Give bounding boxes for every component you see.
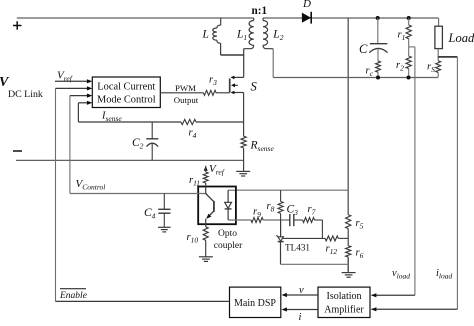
- wire vload sense: [371, 47, 415, 298]
- svg-text:n:1: n:1: [252, 5, 268, 17]
- label r7: [308, 204, 316, 217]
- transistor Q1 (opto phototransistor): [206, 187, 214, 227]
- svg-text:DC Link: DC Link: [8, 89, 43, 100]
- wire i (iso amp to DSP): [282, 307, 319, 311]
- wire rail to L: [220, 18, 222, 25]
- label r11: [189, 175, 200, 188]
- wire r7 to ref node: [315, 220, 323, 238]
- capacitor C (output, with esr): [369, 18, 387, 61]
- wire Vcontrol to opto collector: [70, 193, 206, 195]
- wire + DC link rail: [17, 17, 254, 19]
- label v: [299, 285, 304, 296]
- label C2: [132, 137, 144, 151]
- label Vcontrol: [76, 178, 106, 192]
- svg-text:Amplifier: Amplifier: [324, 305, 364, 316]
- wire Vcontrol input: [70, 94, 92, 194]
- main DSP U4: [230, 287, 281, 317]
- label C: [359, 42, 368, 56]
- capacitor C3: [290, 214, 303, 226]
- label i: [299, 312, 302, 323]
- wire - DC link rail: [16, 159, 244, 161]
- label Rsense: [250, 140, 275, 154]
- capacitor C2: [146, 122, 158, 160]
- label r6: [356, 248, 364, 261]
- label r8: [267, 201, 275, 214]
- wire TL431 ref to divider: [283, 237, 348, 239]
- label Vref (opto bias): [209, 163, 225, 177]
- label r1: [398, 30, 406, 43]
- controller U1 Local Current Mode Control: [92, 77, 160, 108]
- wire LED cathode to r9: [228, 219, 290, 221]
- wire L bottom to primary return: [221, 54, 244, 56]
- label r3: [209, 75, 217, 88]
- resistor r7: [303, 218, 315, 223]
- inductor L (magnetizing): [213, 25, 221, 55]
- svg-text:C: C: [359, 42, 368, 56]
- label C4: [144, 207, 156, 221]
- inductor L2 (secondary winding): [263, 18, 273, 49]
- label r10: [187, 232, 199, 245]
- node + (DC link positive terminal): [13, 21, 22, 29]
- isolation amplifier U3: [318, 287, 370, 317]
- node junction r2 bottom: [407, 76, 411, 80]
- wire Enable input: [56, 86, 93, 301]
- label r2: [396, 60, 404, 73]
- label n:1: [252, 5, 268, 17]
- label r5: [356, 218, 364, 231]
- node junction r1 top: [407, 16, 411, 20]
- label Enable (active low): [59, 289, 87, 301]
- ground (secondary, r6): [342, 273, 356, 278]
- resistor r2: [406, 47, 411, 78]
- svg-text:coupler: coupler: [214, 241, 243, 251]
- resistor r11: [203, 166, 208, 187]
- svg-text:Output: Output: [174, 95, 199, 105]
- wire Isense run: [78, 121, 243, 123]
- svg-text:Local Current: Local Current: [97, 82, 155, 93]
- label rS: [427, 62, 435, 75]
- label Load: [448, 31, 474, 45]
- label Isense: [101, 111, 122, 124]
- svg-text:PWM: PWM: [175, 83, 196, 93]
- wire iload sense: [371, 57, 457, 312]
- wire opto LED anode feed: [228, 189, 348, 191]
- label r12: [326, 244, 338, 257]
- wire r6 to ground: [347, 257, 349, 273]
- label S: [251, 80, 258, 94]
- wire output sense down to r5: [347, 18, 349, 215]
- label rc: [366, 66, 374, 79]
- wire PWM output: [160, 92, 229, 94]
- diode LED (opto): [225, 190, 232, 220]
- label L2: [272, 29, 283, 43]
- label D: [302, 0, 311, 10]
- ground (r10): [199, 257, 213, 262]
- wire load tap to iload line: [438, 56, 458, 58]
- resistor r5: [346, 215, 351, 229]
- resistor r8: [278, 190, 283, 220]
- svg-text:Main DSP: Main DSP: [234, 298, 276, 309]
- label r9: [253, 207, 261, 220]
- diode D: [302, 12, 311, 24]
- svg-text:Isolation: Isolation: [327, 291, 362, 302]
- label L1: [236, 29, 247, 43]
- wire v (iso amp to DSP): [282, 293, 319, 297]
- wire secondary + rail: [263, 17, 439, 19]
- label Vref (controller reference input): [57, 70, 73, 84]
- svg-text:TL431: TL431: [285, 243, 310, 253]
- resistor r9: [251, 218, 263, 223]
- wire Enable: [56, 300, 230, 302]
- resistor r1: [406, 18, 411, 47]
- svg-text:L: L: [202, 29, 209, 41]
- svg-text:Opto: Opto: [218, 229, 237, 239]
- wire r5 to r6: [347, 229, 349, 246]
- inductor L1 (primary winding): [244, 18, 254, 49]
- resistor r6: [346, 246, 351, 257]
- svg-text:Enable: Enable: [59, 291, 87, 301]
- ground (C4): [158, 227, 171, 232]
- wire secondary return rail: [273, 77, 438, 79]
- wire divider tap to vload line: [409, 46, 415, 48]
- label C3: [287, 204, 299, 218]
- svg-text:Mode Control: Mode Control: [97, 94, 156, 105]
- wire TL431 anode to ground: [281, 263, 349, 265]
- resistor Rsense: [241, 93, 246, 172]
- load RL: [435, 26, 443, 48]
- wire L1 bottom to switch drain: [243, 49, 245, 78]
- wire load to rS: [437, 49, 439, 61]
- transistor S (MOSFET switch): [230, 76, 244, 95]
- wire rail to load: [438, 18, 440, 26]
- resistor r4: [181, 119, 196, 124]
- node junction C top: [376, 16, 380, 20]
- opto coupler U2 box: [198, 187, 236, 225]
- resistor r3: [203, 90, 216, 95]
- resistor r12: [325, 236, 338, 241]
- label V DC Link: [0, 75, 43, 100]
- wire L2 bottom down: [272, 49, 274, 78]
- wire Vref input: [55, 79, 92, 83]
- label vload: [392, 268, 410, 281]
- resistor r10: [203, 227, 208, 257]
- svg-text:i: i: [299, 312, 302, 321]
- label iload: [436, 268, 453, 281]
- node junction C bottom: [376, 76, 380, 80]
- label PWM Output: [174, 83, 199, 105]
- svg-text:Load: Load: [448, 31, 474, 45]
- capacitor C4: [158, 194, 170, 228]
- label Opto coupler: [214, 229, 243, 251]
- svg-text:v: v: [299, 285, 304, 296]
- node - (DC link negative terminal): [13, 150, 22, 152]
- label r4: [189, 128, 197, 141]
- wire Isense input: [78, 101, 92, 122]
- label L: [202, 29, 209, 41]
- ground (Rsense / - rail): [236, 171, 250, 176]
- svg-text:D: D: [302, 0, 311, 10]
- resistor rS: [436, 61, 441, 78]
- label TL431: [285, 243, 310, 253]
- svg-text:S: S: [251, 80, 258, 94]
- shunt regulator TL431: [276, 220, 283, 264]
- resistor rc (esr): [376, 61, 381, 78]
